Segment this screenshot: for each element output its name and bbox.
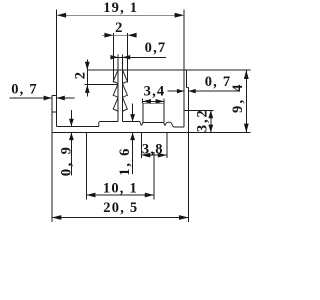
svg-text:3,8: 3,8: [142, 142, 164, 158]
svg-text:0, 7: 0, 7: [11, 82, 38, 98]
svg-text:1, 6: 1, 6: [117, 147, 133, 176]
svg-text:2: 2: [72, 71, 88, 79]
svg-text:19, 1: 19, 1: [103, 0, 138, 16]
svg-text:3,2: 3,2: [195, 108, 211, 132]
svg-text:0,7: 0,7: [145, 40, 167, 56]
svg-text:3,4: 3,4: [144, 83, 166, 99]
svg-text:9, 4: 9, 4: [230, 82, 246, 113]
svg-text:2: 2: [115, 20, 123, 36]
svg-text:10, 1: 10, 1: [103, 181, 138, 197]
svg-text:0, 9: 0, 9: [59, 145, 75, 176]
svg-text:0, 7: 0, 7: [205, 74, 232, 90]
svg-text:20, 5: 20, 5: [103, 200, 138, 216]
